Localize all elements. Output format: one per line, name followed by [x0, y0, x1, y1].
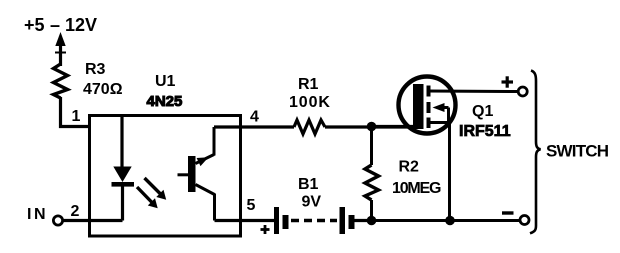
- R2 top wire: [370, 127, 373, 165]
- wire R3 to pin1: [61, 97, 92, 127]
- phototransistor base bar: [188, 156, 196, 192]
- minus sign: [502, 211, 514, 214]
- svg-text:4: 4: [250, 109, 259, 126]
- body arrow: [433, 103, 449, 123]
- pin 4 wire: [214, 125, 294, 128]
- svg-text:IN: IN: [27, 206, 48, 223]
- svg-text:+5–12V: +5–12V: [24, 15, 97, 35]
- channel tick drain: [427, 86, 431, 97]
- pin5 internal wire: [215, 219, 241, 222]
- battery dashed link: [291, 219, 337, 222]
- svg-text:U1: U1: [155, 73, 176, 90]
- svg-text:R1: R1: [298, 76, 319, 93]
- pin 2 wire: [63, 219, 123, 222]
- light arrow b: [137, 187, 158, 208]
- node dot R1/R2/gate: [367, 122, 377, 132]
- svg-text:10MEG: 10MEG: [392, 180, 441, 197]
- pin 5 wire to battery: [241, 219, 275, 222]
- battery B1 plates: [274, 207, 355, 234]
- wire battery to R2 node: [355, 219, 372, 222]
- collector vertical: [213, 127, 216, 156]
- wire R1 to gate: [325, 125, 413, 128]
- collector arrow: [197, 157, 209, 166]
- battery + sign: [261, 225, 270, 234]
- resistor R1: [294, 120, 325, 134]
- svg-text:IRF511: IRF511: [459, 123, 511, 140]
- resistor R2: [365, 165, 379, 200]
- svg-text:4N25: 4N25: [147, 93, 183, 110]
- plus sign: [502, 76, 514, 87]
- svg-text:SWITCH: SWITCH: [546, 142, 609, 161]
- svg-text:9V: 9V: [302, 194, 322, 211]
- svg-text:R3: R3: [85, 61, 106, 78]
- gate wire: [372, 125, 414, 128]
- drain wire to + terminal: [428, 90, 518, 94]
- svg-text:2: 2: [71, 203, 80, 220]
- svg-text:Q1: Q1: [472, 103, 493, 120]
- svg-text:B1: B1: [298, 176, 319, 193]
- node dot source/rail: [445, 216, 455, 226]
- resistor R3: [54, 64, 68, 98]
- supply arrow: [55, 32, 66, 66]
- node dot R2 bottom: [367, 216, 377, 226]
- svg-text:100K: 100K: [289, 94, 331, 111]
- source wire down: [448, 123, 451, 221]
- LED anode wire: [120, 117, 123, 167]
- minus terminal: [520, 216, 529, 225]
- mosfet Q1 circle: [399, 77, 456, 134]
- svg-text:5: 5: [247, 197, 256, 214]
- svg-text:R2: R2: [399, 159, 420, 176]
- light arrow a: [145, 178, 167, 200]
- LED cathode wire: [121, 186, 124, 221]
- emitter diagonal: [196, 185, 215, 195]
- source stub: [428, 121, 450, 124]
- bottom rail: [372, 219, 521, 222]
- emitter vertical: [213, 194, 216, 221]
- base lead: [178, 173, 189, 176]
- LED D1: [112, 167, 135, 187]
- channel tick source: [427, 118, 431, 129]
- plus terminal: [518, 87, 527, 96]
- collector diagonal: [196, 155, 215, 164]
- switch brace: [530, 71, 541, 234]
- channel tick body: [427, 102, 431, 113]
- R2 bottom wire: [370, 200, 373, 221]
- opto U1 box: [90, 116, 241, 237]
- svg-text:470Ω: 470Ω: [83, 81, 123, 98]
- svg-text:1: 1: [72, 108, 81, 125]
- gate bar: [413, 84, 424, 129]
